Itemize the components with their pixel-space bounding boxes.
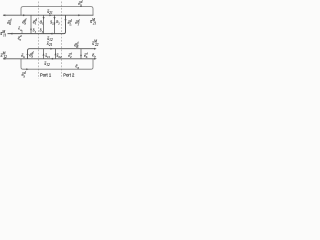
wire: reverse lower line H5 — [3, 58, 95, 60]
wire: top crosstalk bypass path — [21, 7, 93, 16]
arrow H4 right end — [94, 48, 97, 50]
wire: connector x43.5 H4 to H5 — [43, 49, 45, 59]
arrow H5 x51 — [51, 58, 54, 60]
arrow H3 left — [10, 33, 13, 35]
arrow H5 right end — [94, 58, 97, 60]
arrow H3 x50 — [50, 33, 53, 35]
svg-text:s̄11: s̄11 — [45, 54, 51, 59]
svg-text:ā1: ā1 — [40, 20, 44, 25]
svg-text:Port 1: Port 1 — [40, 73, 52, 78]
node: Port 2 reference plane dashed line — [61, 2, 63, 79]
wire: connector x43.6 H2 to H3 — [43, 15, 45, 33]
svg-text:ēb: ēb — [21, 54, 25, 59]
svg-text:ēdS: ēdS — [22, 18, 26, 26]
wire: forward return line H3 with corner up at x65.5 — [8, 15, 66, 33]
svg-text:ēdL: ēdL — [68, 19, 72, 27]
arrow H2 x81 — [78, 14, 81, 16]
arrow H2 x27 — [23, 14, 26, 16]
node: Port 1 reference plane dashed line — [37, 2, 39, 79]
arrow H2 left end — [3, 14, 6, 16]
svg-text:s̄22: s̄22 — [56, 54, 62, 59]
node: tick on bottom bypass at x78 — [77, 67, 79, 69]
svg-text:ēdS: ēdS — [29, 51, 33, 59]
node: tick above H3 at x22 — [21, 30, 23, 34]
svg-text:s̄22: s̄22 — [50, 20, 56, 25]
arrow down on connector x65.5 — [65, 19, 67, 22]
arrow bottom bypass x28 — [26, 68, 29, 70]
arrow up on connector x43.5 — [43, 53, 45, 56]
wire: connector x81 H4 to H5 — [80, 49, 82, 59]
svg-text:ēd1: ēd1 — [33, 18, 37, 26]
svg-text:ēx: ēx — [75, 64, 79, 69]
arrow H4 x53 — [50, 48, 53, 50]
arrow up on connector x27.5 — [27, 52, 29, 55]
arrow H5 left end — [3, 58, 6, 60]
arrow down on connector x54.5 — [54, 17, 56, 20]
svg-text:ēd0: ēd0 — [7, 19, 11, 27]
node: tick on top bypass at x81 — [80, 5, 82, 7]
svg-text:Port 2: Port 2 — [63, 73, 75, 78]
svg-text:ēb: ēb — [92, 53, 96, 58]
wire: connector x55.5 H4 to H5 — [55, 49, 57, 59]
wire: reverse upper line H4 with corner down at x27.5 — [28, 49, 95, 59]
wire: forward main line H2 — [3, 14, 93, 16]
arrow down on connector x43.6 — [43, 17, 45, 20]
wire: bottom crosstalk bypass path — [21, 59, 93, 69]
arrow up on connector x81 — [80, 54, 82, 57]
arrow up on connector x55.5 — [55, 53, 57, 56]
arrow H2 x52 — [49, 14, 52, 16]
arrow down on connector x31 — [30, 29, 32, 32]
wire: connector x54.5 H2 to H3 — [54, 15, 56, 33]
wire: connector x31 H2 to H3 — [30, 15, 32, 33]
